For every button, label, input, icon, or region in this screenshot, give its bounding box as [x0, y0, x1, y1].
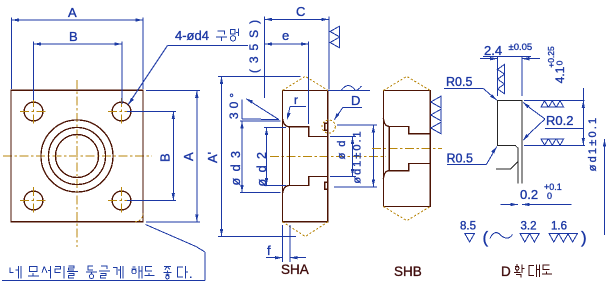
dimension e — [265, 28, 309, 124]
upper triangle row — [541, 101, 548, 107]
bore chamfer diagonal — [511, 162, 518, 170]
SHA dashed corner peak bottom — [283, 222, 329, 237]
SHB bore bottom — [409, 162, 431, 164]
svg-text:3.2: 3.2 — [521, 221, 537, 233]
SHB fillet top — [383, 119, 389, 127]
SHB counterbore vertical — [388, 126, 390, 170]
SHA fillet top r — [283, 119, 290, 127]
bore circle od1 — [56, 135, 99, 178]
svg-text:ød2: ød2 — [255, 145, 269, 186]
SHA groove bottom — [325, 182, 328, 189]
hole top-left — [24, 102, 43, 121]
svg-text:D: D — [501, 264, 511, 279]
hole centerline crosses — [20, 98, 135, 214]
hole bottom-left — [24, 191, 43, 210]
leader label D — [334, 93, 362, 120]
dimension 4.1 +0.25/0 — [546, 46, 585, 145]
SHB left face — [382, 91, 384, 207]
svg-text:8.5: 8.5 — [460, 221, 476, 233]
svg-text:4.1: 4.1 — [553, 66, 567, 83]
SHB surface triangles — [431, 96, 441, 107]
svg-text:SHB: SHB — [394, 264, 422, 279]
svg-text:f: f — [267, 243, 271, 258]
svg-text:C: C — [296, 4, 305, 19]
svg-text:R0.5: R0.5 — [447, 152, 473, 166]
svg-text:B: B — [69, 29, 78, 44]
SHB fillet bottom — [383, 171, 389, 179]
leader label r fillet — [287, 93, 306, 120]
SHB right face — [429, 91, 431, 207]
wavy break mark on ext line — [328, 86, 370, 91]
svg-text:(35S): (35S) — [247, 14, 261, 73]
svg-text:ød1±0.1: ød1±0.1 — [352, 129, 364, 183]
groove corner diagonal — [515, 146, 518, 149]
centerline vertical front view — [76, 80, 78, 247]
svg-text:0: 0 — [555, 60, 565, 65]
dimension f — [266, 225, 306, 262]
dimension C — [265, 4, 329, 98]
SHA bore step top — [308, 127, 310, 137]
svg-text:A': A' — [205, 152, 220, 163]
SHB step bottom — [408, 163, 410, 170]
dimension B vertical — [127, 112, 176, 201]
SHB dashed peak bottom — [383, 207, 430, 221]
flange square body — [11, 90, 143, 222]
korean gu-meong (hole) — [216, 31, 227, 41]
svg-text:ød1±0.1: ød1±0.1 — [587, 116, 599, 172]
SHB bore top — [409, 133, 431, 135]
SHA dashed corner peak top — [283, 76, 329, 90]
SHA top flat — [283, 89, 329, 91]
R0.2 label with two leaders — [523, 102, 583, 141]
SHB counterbore top — [389, 125, 408, 127]
SHB bottom flat — [383, 206, 430, 208]
SHA bore bottom line — [309, 176, 328, 178]
SHA right face — [327, 90, 329, 221]
SHB dashed peak top — [383, 76, 430, 90]
korean note: four corners may be rounded — [10, 266, 192, 279]
svg-text:(: ( — [483, 228, 489, 247]
SHA bore top line — [309, 136, 328, 138]
SHB step top — [408, 126, 410, 133]
svg-text:R0.5: R0.5 — [446, 75, 472, 89]
centerline horizontal front view — [3, 155, 152, 157]
svg-text:A: A — [68, 5, 77, 20]
svg-text:R0.2: R0.2 — [546, 113, 573, 128]
dimension od — [330, 135, 356, 177]
SHA counterbore bottom line — [290, 185, 309, 187]
SHA bottom flat — [283, 221, 329, 223]
rounded corner suggestion arc — [135, 214, 143, 222]
groove top edge — [498, 100, 522, 102]
detail D dashed circle — [322, 120, 335, 133]
groove left wall — [497, 101, 499, 146]
svg-text:SHA: SHA — [281, 262, 309, 277]
note box leader — [2, 225, 205, 281]
svg-text:30°: 30° — [227, 89, 241, 119]
dimension od1 +-0.1 detail — [587, 116, 606, 235]
svg-text:D: D — [351, 93, 360, 108]
svg-text:r: r — [294, 93, 298, 107]
dimension od2 — [255, 128, 286, 187]
SHA centerline — [270, 156, 386, 158]
svg-text:ød: ød — [336, 135, 348, 160]
ext line groove root right — [524, 100, 585, 102]
R0.5 lower label — [447, 146, 498, 165]
detail left surface triangles — [498, 64, 505, 74]
dimension A vertical — [146, 90, 200, 222]
SHA counterbore top line — [290, 126, 309, 128]
SHA counterbore face vertical — [289, 127, 291, 186]
roughness legend — [460, 221, 587, 248]
SHA bore step bottom — [308, 177, 310, 186]
dimension 30 degrees — [227, 89, 279, 120]
svg-text:1.6: 1.6 — [551, 221, 567, 233]
svg-text:4-ød4: 4-ød4 — [175, 28, 209, 43]
svg-text:e: e — [282, 28, 289, 43]
dimension 2.4 +-0.05 — [480, 42, 540, 96]
dimension B horizontal — [34, 29, 123, 104]
groove right wall and face — [521, 101, 523, 184]
hole top-right — [112, 102, 131, 121]
circle od3 — [41, 120, 113, 192]
land left vertical — [517, 148, 519, 183]
leader 4-od4 hole — [128, 28, 248, 105]
svg-text:): ) — [581, 228, 587, 247]
circle od2 — [49, 128, 106, 185]
bore chamfer horizontal — [497, 168, 511, 170]
dimension 0.2 +0.1/0 — [501, 182, 572, 206]
R0.5 upper label — [444, 75, 497, 100]
SHA left face — [282, 90, 284, 221]
hole bottom-right — [112, 191, 131, 210]
groove bottom edge — [498, 145, 516, 147]
svg-text:A: A — [181, 152, 196, 161]
SHB centerline — [372, 148, 442, 150]
surface mark triangles at C ext — [330, 26, 340, 37]
dimension A' vertical — [205, 76, 301, 236]
dimension od3 — [229, 121, 281, 193]
svg-text:2.4: 2.4 — [484, 43, 502, 58]
svg-text:0: 0 — [547, 191, 552, 201]
SHB top flat — [383, 90, 430, 92]
dimension od1 +-0.1 — [334, 125, 377, 187]
korean hwak-dae-do (enlarged view) — [514, 265, 552, 278]
dimension A horizontal — [12, 5, 144, 89]
svg-text:B: B — [158, 153, 173, 162]
lower triangle row — [541, 139, 548, 145]
SHA groove top — [325, 123, 328, 130]
svg-text:ød3: ød3 — [229, 144, 243, 185]
SHA fillet bottom — [283, 186, 290, 194]
SHB counterbore bottom — [389, 170, 408, 172]
svg-text:0.2: 0.2 — [520, 187, 538, 202]
ext line bore right — [524, 144, 585, 146]
svg-text:±0.05: ±0.05 — [509, 42, 533, 53]
